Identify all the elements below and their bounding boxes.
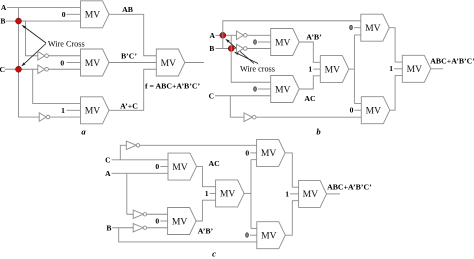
svg-text:AC: AC — [209, 159, 221, 168]
wire C vertical branch — [33, 69, 81, 103]
input label C — [209, 91, 214, 100]
svg-text:f = ABC+A’B’C’: f = ABC+A’B’C’ — [145, 82, 200, 91]
svg-text:1: 1 — [61, 106, 65, 115]
svg-text:b: b — [316, 127, 321, 137]
svg-text:MV: MV — [261, 231, 277, 242]
inverter on B (B') — [237, 44, 271, 53]
svg-text:0: 0 — [253, 84, 257, 93]
svg-text:MV: MV — [161, 58, 177, 69]
inverter on A (A') — [237, 31, 271, 40]
svg-text:C: C — [209, 91, 214, 100]
constant 0 into MV b2 — [253, 84, 271, 93]
svg-text:0: 0 — [155, 216, 159, 225]
svg-text:A’B’: A’B’ — [306, 33, 322, 42]
svg-text:B’C’: B’C’ — [121, 52, 137, 61]
constant 0 into MV c4 — [245, 148, 256, 157]
wire into c5 top — [251, 227, 257, 229]
svg-text:1: 1 — [205, 189, 209, 198]
majority gate MV a1 — [81, 1, 110, 28]
wire A down-branch through B to MV b2 — [231, 35, 271, 82]
output wire f — [185, 62, 204, 64]
svg-text:A’B’: A’B’ — [198, 226, 214, 235]
svg-text:A: A — [105, 169, 111, 178]
wire c3 output distribution — [244, 192, 251, 194]
wire B'C' from a2 to a4 — [109, 62, 156, 64]
wire C horizontal — [215, 95, 271, 97]
wire A down-branch to inverter — [127, 173, 133, 214]
svg-text:MV: MV — [365, 23, 381, 34]
svg-text:0: 0 — [155, 162, 159, 171]
wire AC from c1 to c3 — [197, 167, 216, 187]
svg-text:Wire cross: Wire cross — [240, 64, 275, 73]
majority gate MV b5 — [361, 97, 390, 124]
svg-text:MV: MV — [85, 106, 101, 117]
wire into c4 bottom — [251, 159, 257, 161]
wire B up-branch vertical and top wire to b4 — [223, 21, 361, 49]
svg-text:1: 1 — [285, 189, 289, 198]
net label A'B' — [198, 226, 214, 235]
output label ABC+A'B'C' — [327, 183, 372, 192]
majority gate MV c3 — [216, 180, 245, 207]
majority gate MV a4 — [156, 49, 185, 76]
inverter on C (C') — [38, 65, 81, 74]
constant 1 into MV c6 — [285, 189, 298, 198]
svg-text:C: C — [105, 155, 110, 164]
wire AB from a1 to a4 — [109, 14, 156, 55]
inverter on B (B') — [38, 51, 81, 60]
majority gate MV c2 — [168, 208, 197, 235]
input label A — [1, 3, 7, 12]
svg-text:ABC+A’B’C’: ABC+A’B’C’ — [327, 183, 372, 192]
constant 0 into MV c1 — [155, 162, 168, 171]
wire cross dot on B — [228, 46, 234, 52]
constant 0 into MV b4 — [349, 23, 361, 32]
net label AC — [209, 159, 221, 168]
svg-text:0: 0 — [349, 23, 353, 32]
majority gate MV b4 — [361, 14, 390, 41]
wire B horizontal — [216, 48, 237, 50]
majority gate MV a2 — [81, 49, 110, 76]
wire cross dot on B — [16, 18, 22, 24]
svg-text:0: 0 — [62, 10, 66, 19]
wire c5 output to c6 — [285, 201, 298, 236]
svg-text:AC: AC — [304, 94, 316, 103]
wire A horizontal — [216, 34, 237, 36]
svg-text:MV: MV — [85, 10, 101, 21]
constant 0 into MV c5 — [245, 231, 257, 240]
inverter on A (A') — [39, 113, 80, 122]
constant 0 into MV c2 — [155, 216, 167, 225]
wire cross dot on A — [220, 32, 226, 38]
svg-text:MV: MV — [325, 64, 341, 75]
wire into b5 top — [354, 102, 361, 104]
svg-text:MV: MV — [275, 37, 291, 48]
majority gate MV c4 — [257, 139, 286, 166]
output label ABC+A'B'C' — [430, 57, 474, 66]
wire B down-branch to c5 — [119, 228, 257, 242]
output wire of figure b — [431, 68, 443, 70]
majority gate MV c5 — [257, 222, 286, 249]
wire AC from b2 to b3 — [299, 76, 320, 89]
svg-text:A: A — [1, 3, 7, 12]
wire A'+C from a3 to a4 — [109, 69, 156, 110]
inverter on A (A') — [133, 210, 167, 218]
input label C — [0, 65, 5, 74]
figure label a — [81, 126, 86, 136]
wire vertical distribution of c3 output — [250, 160, 252, 229]
net label AB — [122, 5, 133, 14]
wire b4 output to b6 — [389, 28, 402, 62]
wire A horizontal — [7, 7, 81, 9]
svg-text:0: 0 — [253, 37, 257, 46]
wire C horizontal — [112, 159, 169, 161]
input label C — [105, 155, 110, 164]
input label A — [105, 169, 111, 178]
svg-text:MV: MV — [172, 216, 188, 227]
majority gate MV b6 — [402, 55, 431, 82]
wire A'B' from c2 to c3 — [196, 200, 216, 221]
majority gate MV c1 — [168, 153, 197, 180]
net label A'B' — [306, 33, 322, 42]
svg-text:0: 0 — [245, 231, 249, 240]
constant 1 into MV b6 — [389, 64, 402, 73]
wire C horizontal — [5, 68, 38, 70]
svg-text:c: c — [212, 249, 216, 259]
input label B — [0, 16, 5, 25]
figure label b — [316, 127, 321, 137]
svg-text:C: C — [0, 65, 5, 74]
svg-text:a: a — [81, 126, 86, 136]
label Wire Cross — [48, 39, 85, 48]
input label B — [209, 44, 214, 53]
majority gate MV b2 — [271, 76, 300, 103]
svg-text:A’+C: A’+C — [120, 102, 138, 111]
wire cross dot on C — [16, 66, 22, 72]
svg-text:MV: MV — [85, 58, 101, 69]
arrow to B dot — [22, 25, 47, 43]
svg-text:MV: MV — [366, 106, 382, 117]
svg-text:MV: MV — [172, 162, 188, 173]
wire c4 output to c6 — [285, 153, 299, 187]
inverter on B (B') — [133, 224, 167, 232]
svg-text:1: 1 — [308, 65, 312, 74]
svg-text:Wire Cross: Wire Cross — [48, 39, 85, 48]
majority gate MV c6 — [299, 180, 327, 207]
constant 0 into MV a2 — [60, 59, 80, 68]
wire b3 output to b4 and b5 — [349, 68, 355, 70]
svg-text:MV: MV — [220, 189, 236, 200]
net label B'C' — [121, 52, 137, 61]
wire C up-branch to inverter — [120, 145, 126, 160]
constant 0 into MV b5 — [350, 106, 362, 115]
svg-text:1: 1 — [389, 64, 393, 73]
svg-text:MV: MV — [275, 84, 291, 95]
output wire of figure c — [327, 193, 341, 195]
svg-text:MV: MV — [261, 148, 277, 159]
inverter on C (C') top — [126, 141, 256, 149]
wire b5 output to b6 — [390, 76, 403, 111]
constant 1 into MV a3 — [61, 106, 80, 115]
svg-text:0: 0 — [350, 106, 354, 115]
wire A'B' from b1 to b3 — [299, 42, 320, 62]
majority gate MV b3 — [320, 56, 349, 83]
output label f = ABC+A'B'C' — [145, 82, 200, 91]
arrow to C dot — [21, 44, 46, 67]
svg-text:B: B — [209, 44, 214, 53]
svg-text:B: B — [0, 16, 5, 25]
majority gate MV a3 — [81, 97, 110, 124]
wire B horizontal — [6, 20, 81, 22]
figure label c — [212, 249, 216, 259]
arrow to A dot — [225, 39, 254, 64]
svg-text:0: 0 — [60, 59, 64, 68]
net label AC — [304, 94, 316, 103]
wire into b4 bottom — [354, 34, 360, 36]
wire C down-branch to inverter — [230, 96, 244, 117]
svg-text:AB: AB — [122, 5, 133, 14]
input label A — [209, 31, 215, 40]
constant 1 into MV c3 — [205, 189, 216, 198]
constant 0 into MV b1 — [253, 37, 271, 46]
constant 0 into MV a1 — [62, 10, 81, 19]
svg-text:MV: MV — [303, 189, 319, 200]
label Wire cross — [240, 64, 275, 73]
arrow to B dot — [234, 52, 258, 64]
wire A vertical branch — [19, 8, 40, 118]
wire A horizontal — [112, 172, 169, 174]
wire B horizontal — [112, 227, 133, 229]
svg-text:MV: MV — [407, 64, 423, 75]
majority gate MV b1 — [271, 29, 300, 56]
svg-text:0: 0 — [245, 148, 249, 157]
wire vertical distribution of b3 output — [353, 35, 355, 104]
svg-text:ABC+A’B’C’: ABC+A’B’C’ — [430, 57, 474, 66]
svg-text:A: A — [209, 31, 215, 40]
constant 1 into MV b3 — [308, 65, 320, 74]
net label A'+C — [120, 102, 138, 111]
inverter on C (C') — [244, 113, 361, 122]
svg-text:B: B — [106, 223, 111, 232]
input label B — [106, 223, 111, 232]
wire B vertical branch to inverter — [26, 21, 38, 56]
